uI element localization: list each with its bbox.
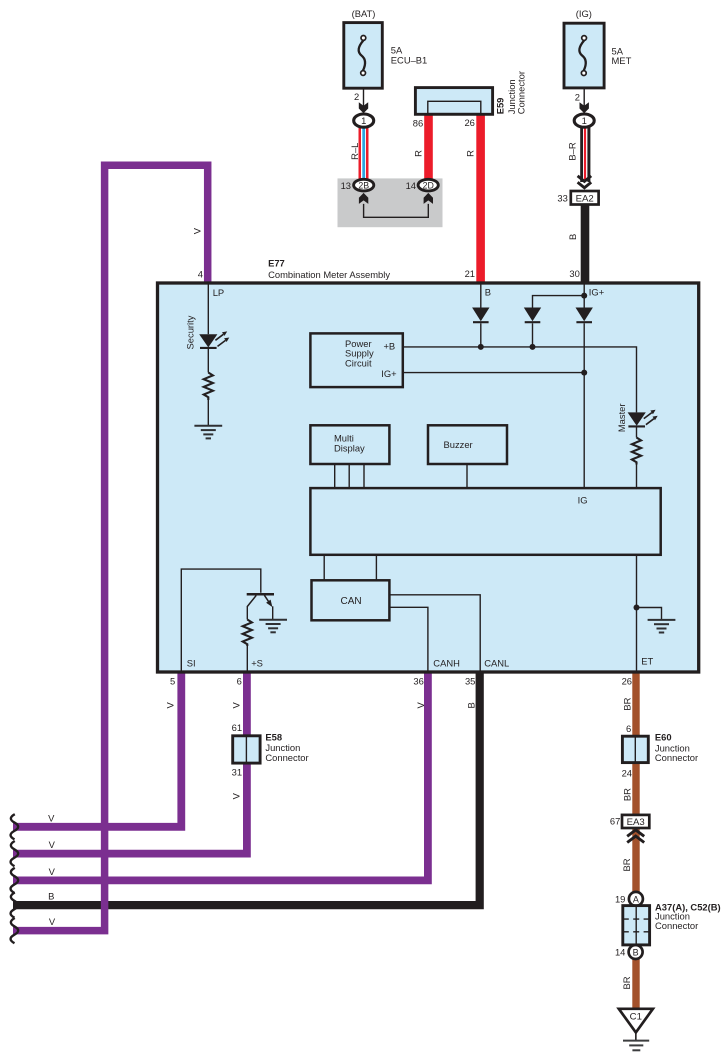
svg-text:LP: LP [213, 287, 224, 298]
svg-text:V: V [49, 916, 56, 927]
wire resistor to +S pin [246, 646, 248, 671]
arrow into connector 1 (BAT) [359, 102, 368, 113]
svg-text:14: 14 [615, 947, 625, 958]
svg-text:67: 67 [610, 816, 620, 827]
arrow up into 2D [424, 193, 433, 204]
svg-text:B–R: B–R [567, 142, 578, 160]
connector 1 ellipse (BAT) [354, 114, 374, 127]
svg-text:6: 6 [626, 723, 631, 734]
svg-text:Connector: Connector [265, 752, 308, 763]
svg-text:26: 26 [464, 117, 474, 128]
diode D2 [524, 308, 541, 323]
ground (C1) [623, 1041, 649, 1051]
svg-text:2: 2 [575, 92, 580, 103]
svg-text:V: V [48, 813, 55, 824]
wire from fuse IG to connector 1 [583, 88, 585, 107]
resistor (Master) [632, 438, 641, 465]
double chevron up from EA3 [627, 830, 644, 843]
E59 junction connector box [415, 88, 492, 115]
wire R from E59 pin 86 to connector 2D [424, 113, 433, 181]
connector 2B ellipse [354, 179, 374, 191]
svg-text:2: 2 [354, 91, 359, 102]
svg-text:33: 33 [557, 192, 567, 203]
svg-text:1: 1 [361, 115, 366, 126]
svg-text:CAN: CAN [341, 596, 362, 607]
svg-text:A: A [633, 894, 639, 904]
svg-text:61: 61 [232, 722, 242, 733]
svg-text:B: B [633, 947, 639, 957]
resistor (+S) [243, 620, 252, 647]
diode D1 [472, 308, 489, 323]
svg-text:Security: Security [184, 315, 195, 349]
svg-text:EA2: EA2 [576, 194, 594, 205]
svg-text:36: 36 [413, 676, 423, 687]
wire +B line to Master branch [403, 347, 637, 413]
transistor Q1 [247, 594, 274, 607]
svg-text:B: B [466, 702, 477, 708]
wire from fuse BAT to connector 1 [363, 88, 365, 107]
wire continuation squiggle row 3 [11, 868, 19, 893]
junction connector A37/C52 box [623, 906, 650, 945]
connector 2D ellipse [418, 179, 438, 191]
resistor (Security) [204, 373, 213, 401]
svg-text:Connector: Connector [655, 920, 698, 931]
svg-text:(IG): (IG) [576, 8, 592, 19]
junction connector E58 box [233, 736, 260, 763]
main block box [310, 488, 660, 555]
svg-text:V: V [231, 702, 242, 709]
Buzzer box [428, 425, 507, 464]
svg-text:R: R [413, 150, 424, 157]
svg-text:BR: BR [621, 858, 632, 871]
ground point triangle C1 [619, 1009, 653, 1033]
svg-text:Connector: Connector [516, 71, 527, 114]
wire continuation squiggle row 2 [11, 841, 19, 866]
wires Multi Display to main block [335, 464, 364, 488]
wires main block to CAN [324, 555, 376, 581]
svg-text:CANL: CANL [484, 658, 509, 669]
svg-text:E60: E60 [655, 732, 672, 743]
connector B circle [629, 945, 643, 959]
EA2 box [571, 191, 599, 205]
connector 1 ellipse (IG) [574, 114, 594, 127]
svg-text:IG+: IG+ [381, 368, 397, 379]
wire emitter to ground [272, 606, 274, 619]
svg-text:E58: E58 [265, 732, 282, 743]
wire C1 to ground [635, 1033, 637, 1041]
svg-text:Circuit: Circuit [345, 357, 372, 368]
svg-text:31: 31 [232, 766, 242, 777]
svg-text:EA3: EA3 [627, 817, 645, 828]
ground (transistor emitter) [259, 620, 287, 633]
E77 Combination Meter Assembly box [158, 283, 699, 672]
wire continuation squiggle row 1 [11, 814, 19, 839]
wire IG+ branch to D2 [533, 296, 585, 308]
svg-text:86: 86 [413, 118, 423, 129]
wire IG+ line [403, 372, 584, 374]
LED Master [628, 410, 658, 427]
diode D1 anode wire [480, 285, 482, 308]
ground (ET internal) [648, 620, 676, 633]
svg-text:Display: Display [334, 442, 365, 453]
svg-text:IG+: IG+ [589, 286, 605, 297]
wire B from pin 35 CANL to left edge row 4 [13, 671, 480, 905]
LED Security [199, 331, 229, 348]
svg-text:V: V [231, 792, 242, 799]
svg-text:21: 21 [465, 268, 475, 279]
svg-text:R–L: R–L [349, 143, 360, 160]
svg-text:13: 13 [341, 180, 351, 191]
diode D1 cathode wire to +B line [480, 323, 482, 347]
svg-text:2B: 2B [358, 181, 369, 191]
wire Buzzer to main block [466, 464, 468, 488]
arrow into connector 1 (IG) [580, 102, 589, 113]
svg-text:V: V [415, 702, 426, 709]
svg-text:4: 4 [198, 268, 203, 279]
svg-text:C1: C1 [630, 1012, 642, 1023]
svg-text:Buzzer: Buzzer [444, 439, 473, 450]
node dot +B/D1 [478, 344, 484, 350]
svg-text:B: B [567, 234, 578, 240]
svg-text:SI: SI [187, 657, 196, 668]
svg-text:24: 24 [622, 767, 632, 778]
wire R-L composite from connector 1 to 2B [359, 127, 369, 180]
svg-text:B: B [485, 286, 491, 297]
wire resistor to ground [207, 400, 209, 426]
wire BR from pin 26 ET to EA3 [632, 671, 639, 816]
EA3 box [622, 815, 649, 828]
svg-text:2D: 2D [423, 181, 434, 191]
svg-text:V: V [165, 702, 176, 709]
svg-text:B: B [48, 891, 54, 902]
svg-text:Combination Meter Assembly: Combination Meter Assembly [268, 269, 390, 280]
wire LED to resistor (Master) [636, 427, 638, 437]
Multi Display box [310, 425, 389, 464]
node IG+ junction dot [581, 293, 587, 299]
node LP wire down to Security LED [207, 285, 209, 335]
wire R from E59 pin 26 to E77 pin 21 [476, 113, 485, 284]
wire linking 2B and 2D arrows [364, 204, 429, 217]
wire main block to ET pin with ground branch [636, 555, 638, 671]
svg-text:ECU–B1: ECU–B1 [391, 55, 427, 66]
wire V from pin 5 to left edge row 1 [13, 671, 181, 827]
svg-text:E59: E59 [494, 98, 505, 115]
diode D3 [576, 308, 593, 323]
diode D2 cathode wire to +B line [532, 323, 534, 347]
wire continuation squiggle row 5 [11, 918, 19, 943]
svg-text:V: V [49, 839, 56, 850]
wire V from pin 4 LP around left side to left edge row 5 [13, 165, 208, 930]
svg-text:26: 26 [622, 676, 632, 687]
wire collector to resistor [246, 606, 248, 620]
node dot on IG+ line [581, 370, 587, 376]
svg-text:BR: BR [622, 697, 633, 710]
svg-text:ET: ET [641, 656, 653, 667]
svg-text:Master: Master [616, 403, 627, 432]
Power Supply Circuit box [310, 333, 402, 387]
connector A circle [629, 892, 643, 906]
wire SI to transistor base [181, 569, 260, 671]
svg-text:+S: +S [251, 657, 263, 668]
svg-text:BR: BR [621, 976, 632, 989]
svg-text:IG: IG [578, 494, 588, 505]
ground (Security) [194, 426, 222, 439]
wire V from pin 36 CANH to left edge row 3 [13, 671, 428, 880]
wire resistor to big box top [636, 465, 638, 490]
wire CAN to CANL pin [389, 595, 480, 671]
wire B-R composite from connector 1 to EA2 [580, 127, 590, 182]
svg-text:V: V [49, 866, 56, 877]
wire BR from EA3 to connector A [632, 828, 639, 894]
diode D3 anode wire with node [583, 285, 585, 308]
shield gray box around 2B/2D connectors [338, 178, 443, 227]
svg-text:E77: E77 [268, 258, 285, 269]
wire BR from connector B to ground C1 [632, 958, 639, 1010]
svg-text:CANH: CANH [433, 658, 460, 669]
svg-text:R: R [465, 150, 476, 157]
svg-text:6: 6 [237, 676, 242, 687]
svg-text:MET: MET [612, 55, 632, 66]
svg-text:30: 30 [569, 268, 579, 279]
svg-text:5: 5 [170, 676, 175, 687]
svg-text:14: 14 [406, 180, 416, 191]
svg-text:19: 19 [615, 894, 625, 905]
svg-text:35: 35 [465, 676, 475, 687]
wire CAN to CANH pin [389, 607, 428, 671]
wire continuation squiggle row 4 [11, 893, 19, 918]
svg-text:Connector: Connector [655, 752, 698, 763]
fuse (BAT) 5A ECU-B1 [344, 8, 427, 88]
double chevron into EA2 [578, 176, 592, 188]
svg-text:BR: BR [622, 788, 633, 801]
wire to internal ground [637, 608, 662, 620]
wire V from pin 6 through E58 to left edge row 2 [13, 671, 247, 854]
CAN box [312, 580, 390, 620]
fuse (IG) 5A MET [564, 8, 632, 88]
svg-text:V: V [192, 227, 203, 234]
svg-text:1: 1 [582, 115, 587, 126]
svg-text:+B: +B [383, 340, 395, 351]
node dot +B/D2 [530, 344, 536, 350]
node dot ET branch [634, 605, 640, 611]
svg-text:(BAT): (BAT) [352, 8, 376, 19]
wire B from EA2 to E77 pin 30 [581, 204, 590, 284]
junction connector E60 box [622, 736, 648, 762]
arrow up into 2B [359, 193, 368, 204]
diode D3 cathode wire down to IG line and big box [583, 323, 585, 489]
wire LED to resistor [207, 349, 209, 373]
